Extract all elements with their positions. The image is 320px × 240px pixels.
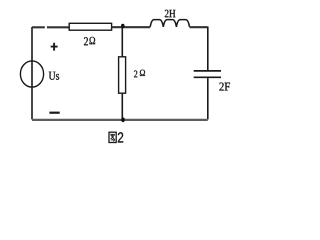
node junction bottom [121,117,125,122]
label 2 (series resistor) [84,37,88,45]
wire right lower [207,78,209,119]
wire top left [32,26,69,28]
capacitor 2F bottom plate [194,76,221,78]
label ohm (series resistor) [90,37,96,44]
resistor 2ohm series (box) [69,23,111,30]
label 2 (shunt resistor) [134,71,137,78]
wire bottom [32,119,208,121]
label 2F [219,83,230,91]
node junction top [121,24,125,28]
wire left vertical [31,27,33,119]
wire branch lower [121,93,123,119]
capacitor 2F top plate [194,70,221,72]
inductor 2H [150,20,189,27]
wire right upper (vertical) [207,27,209,71]
caption figure 2 ideograph (tu) [109,132,116,142]
polarity plus [51,43,58,51]
polarity minus [49,112,59,114]
wire branch upper [121,27,123,57]
label Us [49,72,59,80]
label 2H [165,10,176,17]
voltage source Us (circle) [20,61,43,87]
label ohm (shunt resistor) [140,70,145,76]
wire top right (horizontal) [190,26,208,28]
wire top middle [112,26,151,28]
resistor 2ohm shunt (box) [119,57,126,93]
caption digit 2 [118,132,123,142]
